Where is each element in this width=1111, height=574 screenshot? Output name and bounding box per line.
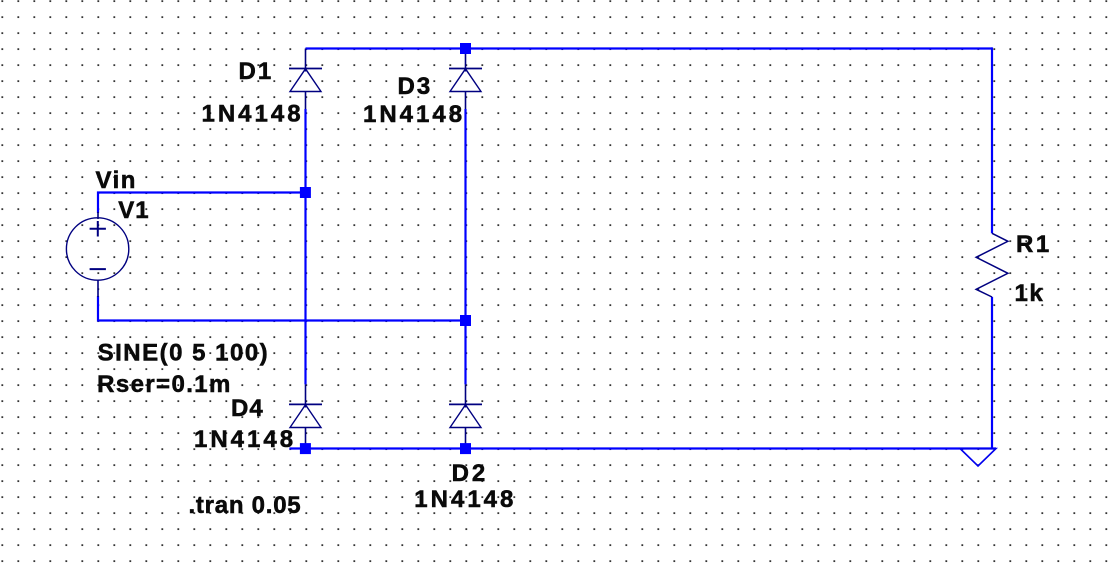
wire V1 bottom bbox=[98, 296, 466, 321]
svg-text:D1: D1 bbox=[239, 58, 274, 85]
node junction bottom D2 bbox=[460, 443, 471, 454]
svg-text:Rser=0.1m: Rser=0.1m bbox=[97, 371, 232, 398]
node junction V1 bottom / D3-D2 bbox=[460, 315, 471, 326]
wire column2 middle bbox=[464, 109, 466, 384]
svg-text:SINE(0 5 100): SINE(0 5 100) bbox=[98, 339, 270, 366]
svg-text:V1: V1 bbox=[118, 197, 149, 224]
wire bottom rail bbox=[289, 447, 996, 449]
diode D3 bbox=[449, 49, 482, 110]
svg-text:Vin: Vin bbox=[96, 167, 137, 194]
svg-text:D4: D4 bbox=[231, 395, 264, 422]
svg-text:R1: R1 bbox=[1016, 231, 1052, 258]
diode D2 bbox=[449, 384, 482, 444]
voltage source V1 bbox=[66, 212, 128, 297]
node junction bottom D4 bbox=[300, 443, 311, 454]
diode D1 bbox=[289, 49, 322, 110]
svg-text:1N4148: 1N4148 bbox=[414, 486, 516, 513]
svg-text:1N4148: 1N4148 bbox=[194, 426, 296, 453]
node junction Vin bbox=[300, 187, 311, 198]
wire right vertical lower bbox=[991, 297, 993, 449]
wire right vertical upper bbox=[991, 47, 993, 233]
svg-text:1N4148: 1N4148 bbox=[363, 101, 465, 128]
svg-text:.tran 0.05: .tran 0.05 bbox=[189, 492, 302, 519]
ground bbox=[960, 449, 996, 467]
resistor R1 bbox=[976, 233, 1008, 297]
node junction top (D3 cathode) bbox=[460, 43, 471, 54]
wire column1 middle bbox=[304, 109, 306, 384]
wire top rail bbox=[306, 47, 993, 49]
svg-text:1N4148: 1N4148 bbox=[202, 101, 304, 128]
wire Vin horizontal bbox=[98, 193, 306, 214]
svg-text:D2: D2 bbox=[452, 460, 489, 487]
svg-text:D3: D3 bbox=[398, 73, 433, 100]
svg-text:1k: 1k bbox=[1015, 280, 1045, 307]
diode D4 bbox=[289, 384, 322, 444]
